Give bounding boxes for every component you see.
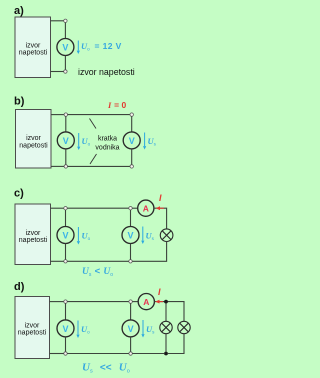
wire top a (51, 20, 64, 22)
wire ammeter to right corner d (155, 302, 185, 322)
terminal node top a (64, 19, 67, 22)
svg-text:d): d) (14, 281, 25, 293)
terminal node bottom-middle d (129, 352, 132, 355)
junction dot top d (164, 300, 168, 304)
wire voltmeter1 to bottom d (65, 337, 67, 352)
wire node to voltmeter2 c (130, 210, 132, 226)
voltage source box b (16, 110, 52, 169)
svg-text:V: V (127, 231, 133, 241)
wire bottom d left (50, 353, 64, 355)
wire voltmeter to node bottom a (64, 56, 66, 70)
wire ammeter to corner c (154, 208, 167, 229)
terminal node top-middle d (129, 300, 132, 303)
svg-text:A: A (143, 297, 149, 307)
voltage source box c (15, 204, 51, 265)
wire voltmeter1 to bottom c (65, 244, 67, 260)
wire node to ammeter d (132, 301, 138, 303)
terminal node bottom-left d (64, 352, 67, 355)
wire top b left (51, 114, 64, 116)
wire node to voltmeter1 d (65, 303, 67, 319)
wire node to voltmeter2 d (130, 303, 132, 319)
ammeter A d (138, 294, 154, 310)
svg-text:izvor: izvor (26, 230, 41, 237)
arrow Us c (141, 227, 144, 245)
wire node to voltmeter1 b (65, 116, 67, 131)
wire bottom c middle (67, 260, 128, 262)
terminal node top-left d (64, 300, 67, 303)
terminal node bottom-left b (64, 165, 67, 168)
svg-text:izvor: izvor (25, 322, 40, 329)
pointer line to bottom wire (90, 154, 97, 164)
wire voltmeter2 to bottom node b (131, 149, 133, 165)
terminal node top-middle c (129, 207, 132, 210)
voltmeter V1 b (57, 132, 74, 149)
svg-text:a): a) (14, 5, 24, 17)
wire voltmeter2 to bottom c (130, 244, 132, 260)
current arrow I c (156, 206, 164, 210)
pointer line to top wire (90, 119, 97, 129)
arrow U0 c (77, 227, 80, 245)
terminal node top-left b (64, 113, 67, 116)
svg-text:V: V (62, 324, 68, 334)
arrow Us d (141, 320, 144, 338)
svg-text:V: V (62, 43, 68, 53)
wire lamp1 to bottom junction d (165, 334, 167, 352)
wire node to ammeter c (132, 207, 137, 209)
voltmeter V1 c (57, 227, 74, 244)
wire top c left (51, 207, 64, 209)
voltmeter V2 c (122, 227, 139, 244)
wire node to voltmeter2 b (131, 116, 133, 131)
svg-text:izvor napetosti: izvor napetosti (78, 67, 135, 77)
voltage source box d (15, 297, 50, 359)
arrow U0 d (76, 321, 79, 339)
wire bottom d right (132, 353, 164, 355)
terminal node bottom-left c (64, 260, 67, 263)
terminal node top-left c (64, 207, 67, 210)
svg-text:V: V (128, 324, 134, 334)
voltmeter V a (57, 39, 74, 56)
wire top d left (50, 301, 64, 303)
svg-text:Uo = 12 V: Uo = 12 V (81, 41, 122, 52)
svg-text:izvor: izvor (26, 42, 41, 49)
svg-text:napetosti: napetosti (19, 237, 48, 244)
svg-text:V: V (129, 136, 135, 146)
wire voltmeter1 to bottom node b (65, 149, 67, 165)
svg-text:Us<Uo: Us<Uo (82, 266, 113, 278)
terminal node bottom-middle c (129, 260, 132, 263)
svg-text:vodnika: vodnika (95, 145, 119, 152)
svg-text:c): c) (14, 188, 24, 200)
arrow U0 b (77, 133, 80, 150)
svg-text:Us<<Uo: Us<<Uo (82, 362, 130, 375)
wire bottom b middle (68, 165, 130, 167)
voltmeter V1 d (57, 320, 74, 337)
wire bottom a (51, 71, 64, 73)
svg-text:napetosti: napetosti (19, 49, 48, 56)
wire lamp2 to bottom d (168, 334, 184, 354)
wire node to voltmeter1 c (65, 210, 67, 226)
svg-text:napetosti: napetosti (19, 142, 48, 149)
arrow Us b (143, 133, 146, 150)
lamp c (160, 229, 173, 242)
wire junction to lamp1 d (165, 303, 167, 321)
svg-text:b): b) (14, 95, 25, 107)
wire bottom c left (51, 260, 64, 262)
wire node to voltmeter a (64, 23, 66, 39)
current arrow I d (155, 300, 163, 304)
lamp 1 d (160, 321, 172, 333)
voltmeter V2 d (122, 320, 139, 337)
terminal node bottom a (64, 70, 67, 73)
wire top d middle (67, 301, 129, 303)
svg-text:V: V (62, 231, 68, 241)
wire bottom d middle (67, 353, 129, 355)
voltmeter V2 b (123, 132, 140, 149)
svg-text:V: V (63, 136, 69, 146)
svg-text:kratka: kratka (98, 136, 117, 143)
svg-text:A: A (143, 204, 149, 214)
voltage source box a (15, 17, 51, 78)
wire bottom b left (51, 165, 64, 167)
terminal node top-right b (130, 113, 133, 116)
terminal node bottom-right b (130, 165, 133, 168)
ammeter A c (138, 200, 154, 216)
svg-text:napetosti: napetosti (18, 330, 47, 337)
wire top c middle (67, 207, 128, 209)
svg-text:izvor: izvor (26, 135, 41, 142)
junction dot bottom d (164, 352, 168, 356)
wire lamp to bottom corner c (132, 242, 166, 262)
wire top b middle (68, 114, 130, 116)
lamp 2 d (178, 321, 190, 333)
arrow U0 a (77, 41, 80, 55)
wire voltmeter2 to bottom d (130, 337, 132, 352)
svg-text:I = 0: I = 0 (107, 100, 126, 110)
